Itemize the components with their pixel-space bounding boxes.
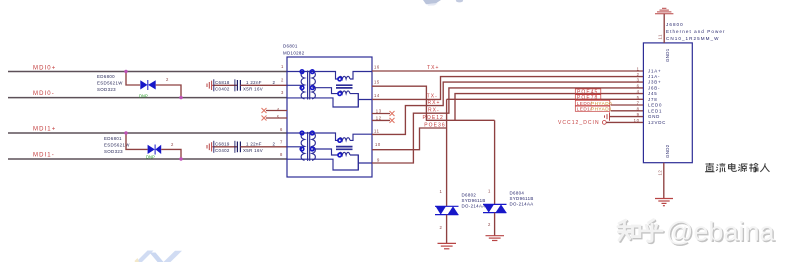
- text DC power input label (hanzi strokes): [705, 163, 770, 172]
- svg-text:RX-: RX-: [428, 108, 440, 114]
- svg-text:D6801: D6801: [283, 44, 298, 49]
- capacitor C6818 label: [214, 79, 235, 91]
- svg-text:POE36: POE36: [424, 123, 445, 129]
- svg-text:D6804: D6804: [510, 190, 525, 195]
- svg-text:MDI0+: MDI0+: [33, 65, 56, 71]
- wire ED6801 right: [161, 149, 181, 159]
- svg-text:DNP: DNP: [146, 155, 155, 160]
- wire ED6800 right: [156, 85, 181, 98]
- svg-text:POE12: POE12: [423, 115, 444, 121]
- svg-text:LED0: LED0: [648, 103, 662, 108]
- svg-text:X5R 16V: X5R 16V: [243, 86, 263, 91]
- svg-text:VCC12_DCIN: VCC12_DCIN: [558, 120, 600, 126]
- svg-text:1 22nF: 1 22nF: [246, 142, 262, 147]
- pin 12 no-connect stub: [372, 118, 395, 123]
- svg-text:GND2: GND2: [665, 144, 670, 158]
- svg-text:12VDC: 12VDC: [648, 120, 666, 125]
- svg-text:ED6801: ED6801: [104, 136, 122, 141]
- connector internal vertical text GND1: [665, 48, 670, 62]
- svg-text:9: 9: [637, 112, 640, 117]
- wire ED6801 left: [126, 133, 148, 149]
- ground sideways pin9: [605, 112, 610, 120]
- svg-text:6: 6: [637, 84, 640, 89]
- svg-text:SOD323: SOD323: [104, 149, 123, 154]
- junction MDI1+: [124, 131, 127, 134]
- connector internal vertical text GND2: [665, 144, 670, 158]
- ESD diode ED6801: [148, 145, 162, 155]
- ESD diode ED6800: [140, 80, 155, 90]
- value DNP green ED6800: [139, 94, 148, 99]
- capacitor C6819: [237, 142, 240, 153]
- pin 2 ED6801: [171, 142, 174, 147]
- svg-text:1: 1: [637, 66, 640, 71]
- svg-text:J78: J78: [648, 97, 657, 102]
- node LED0/PHYAD0 port: [575, 100, 612, 106]
- svg-text:8: 8: [637, 106, 640, 111]
- junction MDI0+: [124, 70, 127, 73]
- svg-text:SYD9611B: SYD9611B: [462, 198, 486, 203]
- svg-text:TX-: TX-: [427, 94, 438, 100]
- svg-text:X5R 16V: X5R 16V: [243, 148, 263, 153]
- svg-text:2: 2: [273, 142, 276, 147]
- svg-text:1 22nF: 1 22nF: [246, 80, 262, 85]
- svg-text:1: 1: [488, 188, 491, 193]
- wire MDI1+: [8, 132, 287, 134]
- svg-text:8: 8: [280, 152, 283, 157]
- wire RX- net: [372, 88, 643, 163]
- svg-text:MD10282: MD10282: [283, 51, 305, 56]
- svg-text:2: 2: [637, 72, 640, 77]
- wire C6819 to pin7: [240, 146, 287, 148]
- svg-text:SYD9611B: SYD9611B: [510, 196, 534, 201]
- wire D6802 to ground: [446, 215, 448, 244]
- wire D6804 to ground: [494, 213, 496, 236]
- transformer D6801 box: [287, 57, 372, 177]
- svg-text:13: 13: [376, 108, 382, 113]
- connector pin numbers: [634, 66, 640, 123]
- diode D6802: [435, 206, 459, 214]
- pin 2 ED6800: [166, 77, 169, 82]
- pin 12 number: [658, 170, 663, 176]
- node POE12: [423, 115, 444, 121]
- svg-text:MDI1+: MDI1+: [33, 127, 56, 133]
- svg-text:SOD323: SOD323: [97, 87, 116, 92]
- svg-text:DO-214AA: DO-214AA: [462, 203, 486, 208]
- svg-text:LED1/: LED1/: [577, 107, 593, 112]
- faint logo bottom left: [135, 251, 183, 262]
- svg-text:@ebaina: @ebaina: [666, 217, 775, 247]
- svg-text:12: 12: [376, 115, 382, 120]
- ground sideways C6818: [207, 81, 214, 90]
- ground D6802: [438, 243, 457, 248]
- junction MDI1-: [179, 157, 182, 160]
- svg-text:GND: GND: [648, 114, 660, 119]
- connector J6800 labels: [666, 22, 726, 41]
- ESD diode ED6801 label: [104, 136, 130, 154]
- capacitor C6819 label: [214, 141, 235, 153]
- value C6818 22nF X5R 16V: [243, 80, 276, 91]
- ground pin12: [655, 199, 673, 206]
- transistor D6802 labels: [462, 193, 486, 209]
- node TX+: [427, 65, 439, 71]
- transformer channel A choke core: [336, 85, 353, 88]
- transformer channel B primary wires: [287, 133, 372, 170]
- node TX-: [427, 94, 438, 100]
- node VCC12_DCIN: [558, 120, 606, 126]
- svg-text:15: 15: [374, 80, 380, 85]
- svg-text:1: 1: [281, 64, 284, 69]
- watermark zhihu hanzi: [619, 221, 663, 243]
- svg-text:J3B+: J3B+: [648, 80, 661, 85]
- transformer channel B polarity dots: [300, 131, 341, 157]
- pin 13 no-connect stub: [372, 111, 395, 116]
- node POE36: [424, 123, 445, 129]
- svg-text:C0402: C0402: [215, 86, 230, 91]
- svg-text:MDI1-: MDI1-: [33, 153, 55, 159]
- transformer right pin numbers: [374, 65, 382, 163]
- svg-text:GND1: GND1: [665, 48, 670, 62]
- svg-text:6: 6: [280, 127, 283, 132]
- pin 1 D6802: [440, 189, 443, 194]
- transformer channel B core: [308, 132, 310, 161]
- svg-text:MDI0-: MDI0-: [33, 91, 55, 97]
- diode D6804: [483, 204, 507, 212]
- ground D6804: [486, 236, 505, 241]
- wire C6818 to pin2: [240, 84, 287, 86]
- node MDI1+: [33, 127, 56, 133]
- svg-text:2: 2: [281, 78, 284, 83]
- svg-text:ESD5621W: ESD5621W: [97, 81, 123, 86]
- svg-text:1: 1: [440, 189, 443, 194]
- node LED1/PHYAD1 port: [575, 106, 612, 112]
- chassis ground top: [655, 8, 673, 13]
- svg-text:RX+: RX+: [428, 100, 441, 106]
- svg-text:16: 16: [374, 65, 380, 70]
- svg-text:LED1: LED1: [648, 108, 662, 113]
- svg-text:C6819: C6819: [215, 142, 230, 147]
- wire LED0: [611, 104, 644, 106]
- svg-text:J6B-: J6B-: [648, 86, 660, 91]
- wire pin12: [663, 163, 665, 199]
- svg-text:C6818: C6818: [215, 80, 230, 85]
- wire ED6800 left: [126, 72, 140, 86]
- transformer channel B choke core: [336, 147, 353, 150]
- svg-text:7: 7: [280, 139, 283, 144]
- svg-text:10: 10: [634, 118, 640, 123]
- node MDI0-: [33, 91, 55, 97]
- capacitor C6818: [237, 80, 240, 91]
- transformer D6801 label: [283, 44, 305, 56]
- svg-text:3: 3: [637, 78, 640, 83]
- wire POE36 net: [372, 99, 643, 149]
- node POE78 port: [575, 95, 601, 102]
- svg-text:D6802: D6802: [462, 193, 477, 198]
- svg-text:J1A-: J1A-: [648, 74, 660, 79]
- svg-text:CN10_1R25MM_W: CN10_1R25MM_W: [666, 36, 719, 41]
- svg-text:10: 10: [375, 142, 381, 147]
- svg-text:2: 2: [166, 77, 169, 82]
- value C6819 22nF X5R 16V: [243, 142, 276, 153]
- wire TVS D6802 vertical: [446, 99, 448, 206]
- pin 5 no-connect stub: [262, 116, 288, 121]
- junction MDI0-: [179, 96, 182, 99]
- transformer channel A left coil: [301, 71, 304, 99]
- svg-text:J6800: J6800: [666, 22, 684, 27]
- svg-text:C0402: C0402: [215, 148, 230, 153]
- svg-text:Ethernet and Power: Ethernet and Power: [666, 29, 726, 34]
- svg-text:ED6800: ED6800: [97, 74, 115, 79]
- svg-text:2: 2: [273, 80, 276, 85]
- svg-text:12: 12: [658, 170, 663, 176]
- svg-text:2: 2: [171, 142, 174, 147]
- node RX-: [428, 108, 440, 114]
- node MDI0+: [33, 65, 56, 71]
- transformer channel B right coil: [312, 132, 315, 160]
- svg-text:9: 9: [377, 157, 380, 162]
- value DNP green ED6801: [146, 155, 155, 160]
- wire MDI0-: [8, 97, 287, 99]
- node RX+: [428, 100, 441, 106]
- wire TX+ net: [372, 70, 643, 72]
- svg-text:11: 11: [658, 34, 663, 40]
- wire C6819 ground to plate: [214, 146, 237, 148]
- transformer channel A primary wires: [287, 72, 372, 108]
- transistor D6804 labels: [510, 190, 534, 206]
- svg-text:2: 2: [440, 225, 443, 230]
- svg-text:7: 7: [637, 101, 640, 106]
- transformer channel A polarity dots: [300, 70, 341, 96]
- svg-text:5: 5: [637, 95, 640, 100]
- wire MDI1-: [8, 158, 287, 160]
- svg-text:J45: J45: [648, 91, 657, 96]
- wire LED1: [611, 110, 644, 112]
- ESD diode ED6800 label: [97, 74, 123, 92]
- node POE45 port: [575, 89, 601, 96]
- svg-text:TX+: TX+: [427, 65, 439, 71]
- wire C6818 ground to plate: [214, 84, 237, 86]
- pin 2 D6802: [440, 225, 443, 230]
- connector internal labels: [648, 68, 666, 125]
- svg-text:PHYAD0: PHYAD0: [591, 101, 612, 106]
- transformer channel B choke windings: [339, 138, 350, 155]
- wire RX+ net: [372, 82, 643, 134]
- wire pin11: [663, 14, 665, 43]
- svg-text:14: 14: [374, 93, 380, 98]
- transformer channel B left coil: [301, 132, 304, 160]
- wire TX- net: [372, 77, 643, 100]
- wire VCC12 pin10: [606, 121, 643, 123]
- faint logo top smudges: [423, 0, 463, 6]
- transformer left pin numbers: [277, 64, 284, 157]
- node MDI1-: [33, 153, 55, 159]
- svg-text:11: 11: [374, 128, 380, 133]
- transformer channel A choke windings: [339, 76, 350, 93]
- transformer channel A core: [308, 71, 310, 100]
- svg-text:2: 2: [488, 222, 491, 227]
- pin 11 number: [658, 34, 663, 40]
- pin 1 D6804: [488, 188, 491, 193]
- pin 4 no-connect stub: [262, 108, 288, 113]
- svg-text:PHYAD1: PHYAD1: [591, 107, 612, 112]
- wire POE12 net: [372, 86, 643, 120]
- ground sideways C6819: [207, 142, 214, 151]
- svg-text:3: 3: [281, 90, 284, 95]
- svg-text:LED0/: LED0/: [577, 101, 593, 106]
- wire GND pin9: [610, 116, 644, 118]
- transformer channel A right coil: [312, 71, 315, 99]
- svg-text:DO-214AA: DO-214AA: [510, 201, 534, 206]
- svg-text:4: 4: [637, 89, 640, 94]
- svg-text:DNP: DNP: [139, 94, 148, 99]
- pin 2 D6804: [488, 222, 491, 227]
- wire MDI0+: [8, 71, 287, 73]
- wire TVS D6804 vertical: [494, 120, 496, 204]
- connector J6800 box: [643, 43, 692, 163]
- svg-text:J1A+: J1A+: [648, 68, 661, 73]
